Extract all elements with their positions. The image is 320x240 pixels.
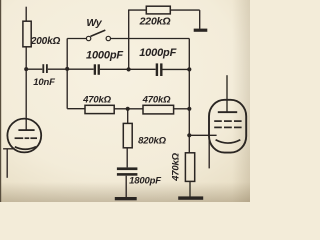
capacitor C 10nF plates xyxy=(42,64,47,73)
svg-text:1800pF: 1800pF xyxy=(129,176,161,187)
tube V2 grid dashes row 1 xyxy=(214,120,241,122)
supply terminal bar xyxy=(194,29,208,32)
resistor R 220k box xyxy=(146,6,170,14)
resistor R 200k box xyxy=(23,21,31,47)
wire: 470k vertical to ground xyxy=(189,181,191,196)
wire: switch to right rail xyxy=(111,38,190,40)
svg-text:470kΩ: 470kΩ xyxy=(82,95,112,106)
resistor R 470k b box xyxy=(143,105,174,114)
node C junction dot (220k tap) xyxy=(127,67,131,71)
wire: 1000pF a to node C and on to C 1000pF b xyxy=(100,68,156,70)
wire: 200k bottom to node A xyxy=(25,47,27,69)
tube V1 grid dashes xyxy=(15,137,37,139)
scan edge left xyxy=(0,0,1,202)
resistor R 470k a box xyxy=(85,105,114,113)
wire: mid vertical from switch down to 470k row xyxy=(66,39,68,109)
wire: node A down into tube V1 plate xyxy=(25,69,27,130)
ground bar left xyxy=(115,197,137,200)
wire: top corner to 220k box xyxy=(128,9,146,11)
tube V1 cathode arc xyxy=(15,147,36,150)
wire: 220k branch vertical (crosses switch wire, no dot) xyxy=(128,10,130,69)
tube V2 grid dashes row 2 xyxy=(214,126,241,128)
wire: 1800pF to ground xyxy=(125,176,127,198)
wire: V1 cathode lead horizontal xyxy=(3,148,14,150)
capacitor C 1000pF (second) plates xyxy=(156,63,163,76)
resistor R 820k box xyxy=(123,123,132,147)
wire: node G down to 820k xyxy=(127,109,129,124)
svg-text:1000pF: 1000pF xyxy=(86,50,123,62)
wire: supply corner down xyxy=(199,10,201,29)
svg-text:820kΩ: 820kΩ xyxy=(138,136,167,147)
wire: switch feed left segment xyxy=(67,38,86,40)
svg-text:470kΩ: 470kΩ xyxy=(171,152,182,182)
node E junction dot (470k row meets rail) xyxy=(187,107,191,111)
wire: V2 anode lead free end xyxy=(226,75,228,112)
wire: 470k b to rail xyxy=(174,108,190,110)
wire: 470k row left segment xyxy=(67,108,85,110)
svg-text:Wy: Wy xyxy=(86,17,103,29)
paper background xyxy=(0,0,250,202)
node G junction dot (820k tap) xyxy=(126,107,130,111)
wire: 820k to 1800pF xyxy=(126,148,128,168)
ground bar right xyxy=(178,196,203,199)
switch Wy left contact xyxy=(86,36,90,40)
wire: 10nF to node B and on to C 1000pF a xyxy=(48,68,94,70)
svg-text:10nF: 10nF xyxy=(33,77,55,88)
node F junction dot (grid lead tap) xyxy=(187,133,191,137)
tube V1 envelope xyxy=(7,119,41,153)
capacitor C 1000pF (first) plates xyxy=(94,64,100,75)
svg-text:1000pF: 1000pF xyxy=(139,47,176,59)
tube V2 cathode arc xyxy=(216,140,241,143)
svg-text:200kΩ: 200kΩ xyxy=(30,36,61,47)
switch Wy right contact xyxy=(106,36,110,40)
tube V2 envelope xyxy=(209,100,246,153)
wire: node A to capacitor 10nF xyxy=(26,68,42,70)
tube V1 plate bar xyxy=(18,129,34,131)
capacitor C 1800pF plates xyxy=(117,167,137,175)
wire: right rail vertical xyxy=(188,39,190,153)
svg-text:220kΩ: 220kΩ xyxy=(139,16,171,28)
node D junction dot xyxy=(187,67,191,71)
node A junction dot (left anode node) xyxy=(24,67,28,71)
wire: left rail top free end xyxy=(25,7,27,22)
wire: 220k box to supply corner xyxy=(170,9,199,11)
resistor R 470k vertical box xyxy=(185,153,194,182)
svg-text:470kΩ: 470kΩ xyxy=(142,95,172,106)
wire: cathode stub of V2 xyxy=(208,137,210,169)
node B junction dot xyxy=(65,67,69,71)
switch Wy lever xyxy=(91,30,106,36)
wire: between 470k a and 470k b xyxy=(114,108,143,110)
wire: 1000pF b to node D on right rail xyxy=(163,68,190,70)
wire: grid lead to tube V2 xyxy=(189,134,216,136)
wire: V1 cathode lead vertical xyxy=(6,149,8,178)
tube V2 plate bar xyxy=(218,111,237,113)
